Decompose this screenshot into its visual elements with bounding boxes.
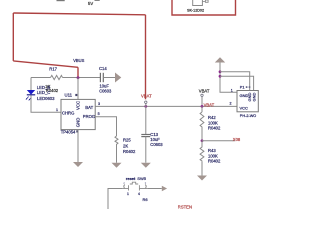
resistor R17 <box>51 75 63 79</box>
wire VBUS horizontal <box>31 77 51 79</box>
LED emission arrows <box>26 97 28 100</box>
op-amp U11 charger chip body <box>61 99 95 129</box>
svg-text:2: 2 <box>230 101 232 105</box>
svg-text:PH-2-WO: PH-2-WO <box>240 114 256 118</box>
wire C14 to ground <box>103 77 115 79</box>
wire red left vertical <box>12 13 14 61</box>
wire red slope to VBUS <box>13 61 78 67</box>
svg-text:2K: 2K <box>123 143 128 148</box>
svg-text:CHRG: CHRG <box>62 111 74 116</box>
wire red VBAT vertical <box>145 15 147 100</box>
wire branch to P1 top pin a <box>220 72 250 91</box>
ground below chip <box>73 162 83 167</box>
svg-text:R0402: R0402 <box>208 159 221 164</box>
ground right of C14 <box>115 73 121 83</box>
svg-text:C0603: C0603 <box>99 89 112 94</box>
resistor R25 <box>115 136 118 146</box>
node top edge text fragment right <box>95 0 100 2</box>
svg-text:VBAT: VBAT <box>204 103 215 108</box>
svg-text:R17: R17 <box>49 66 57 71</box>
node top edge text fragment left <box>57 0 65 1</box>
junction VBAT dot mid <box>144 105 147 108</box>
ground below R25 <box>112 163 122 168</box>
svg-text:100K: 100K <box>208 120 218 125</box>
wire 5V red top horizontal <box>13 13 145 15</box>
wire SW5 left <box>108 189 123 210</box>
port VBAT circle mid <box>145 101 147 103</box>
netflag arrow right <box>162 186 167 191</box>
wire gnd stem down <box>220 63 237 93</box>
svg-text:VCC: VCC <box>240 106 249 111</box>
LED diode <box>27 90 35 95</box>
switch SW top (slide) body <box>193 0 203 6</box>
svg-text:VBAT: VBAT <box>141 94 152 99</box>
svg-text:VCC: VCC <box>75 101 80 110</box>
svg-text:R0402: R0402 <box>208 126 221 131</box>
switch SW5 tact <box>123 182 147 190</box>
wire C13 top <box>145 106 147 134</box>
junction VBAT dot right <box>201 105 204 108</box>
svg-text:R42: R42 <box>208 115 216 120</box>
wire LED anode <box>30 78 32 91</box>
svg-text:100K: 100K <box>208 153 218 158</box>
resistor R42 <box>200 112 204 128</box>
svg-text:4: 4 <box>138 192 140 196</box>
capacitor C13 <box>141 134 150 136</box>
svg-text:1: 1 <box>231 89 233 93</box>
svg-text:R25: R25 <box>123 138 131 143</box>
junction dots on stem <box>219 70 222 73</box>
wire C13 to ground <box>145 137 147 163</box>
switch SW top pin <box>202 1 205 3</box>
wire R42 to junction <box>201 128 203 141</box>
wire LED cathode to CHRG <box>31 95 61 112</box>
svg-text:R43: R43 <box>208 148 216 153</box>
svg-text:X08: X08 <box>233 137 241 142</box>
junction VBUS dot <box>77 76 80 79</box>
svg-text:BAT: BAT <box>85 105 93 110</box>
svg-text:C0603: C0603 <box>150 142 163 147</box>
wire R43 to ground <box>201 161 203 175</box>
svg-text:PROG: PROG <box>83 114 95 119</box>
wire chip GND <box>77 130 79 162</box>
svg-text:R0402: R0402 <box>123 149 136 154</box>
svg-text:VBAT: VBAT <box>199 88 210 93</box>
wire SW5 right <box>147 188 162 190</box>
svg-text:R6: R6 <box>143 197 149 202</box>
ground up top right <box>215 57 225 62</box>
svg-text:1: 1 <box>56 108 58 112</box>
wire R17 to C14 <box>63 77 101 79</box>
wire to R42 <box>201 106 203 112</box>
svg-text:RSTEN: RSTEN <box>178 205 192 209</box>
svg-text:3: 3 <box>98 102 100 106</box>
wire BAT to P1 pin2 (VBAT net) <box>95 105 237 107</box>
svg-text:P1: P1 <box>240 86 245 90</box>
svg-text:LED0603: LED0603 <box>37 96 55 101</box>
wire red U-shape top right <box>172 0 236 15</box>
wire X08 <box>202 140 235 142</box>
ground below R43 <box>197 176 207 181</box>
capacitor C14 <box>99 73 101 82</box>
svg-text:LED_C: LED_C <box>37 90 51 95</box>
connector P1 body <box>237 91 258 112</box>
wire PROG <box>95 117 116 136</box>
svg-text:GND: GND <box>251 93 256 102</box>
junction X08 dot <box>201 139 204 142</box>
svg-text:SK-12D02: SK-12D02 <box>187 8 204 12</box>
svg-text:5: 5 <box>98 112 100 116</box>
resistor R43 <box>200 141 204 161</box>
svg-text:1: 1 <box>127 192 129 196</box>
ground below C13 <box>141 163 151 168</box>
svg-text:C14: C14 <box>99 66 107 71</box>
wire red VBUS drop <box>77 67 79 78</box>
svg-text:GND: GND <box>75 118 80 128</box>
svg-text:reset: reset <box>126 176 136 181</box>
svg-text:VBUS: VBUS <box>73 58 84 63</box>
svg-text:5V: 5V <box>88 1 93 6</box>
wire branch to P1 top pin b <box>220 76 254 90</box>
wire R25 to ground <box>116 146 118 163</box>
wire VCC drop from VBUS <box>77 78 79 100</box>
svg-text:TP4054: TP4054 <box>61 129 76 134</box>
svg-text:U11: U11 <box>65 93 73 98</box>
